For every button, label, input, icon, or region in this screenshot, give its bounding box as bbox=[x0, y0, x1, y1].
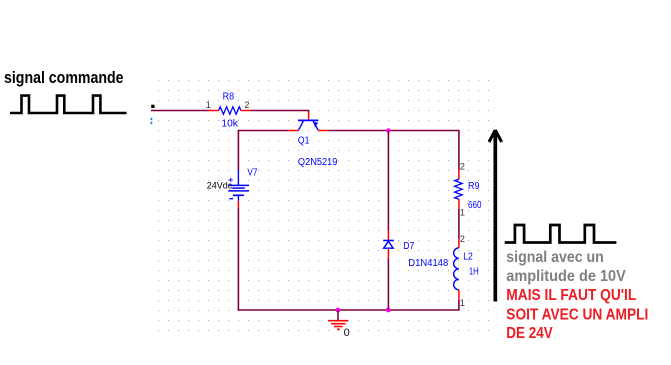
wire R8 to Q1 base corner bbox=[251, 111, 309, 113]
V7 minus pin stub bbox=[237, 201, 239, 208]
L2 bottom pin stub bbox=[458, 290, 460, 300]
inductor L2 bbox=[454, 248, 459, 290]
svg-text:MAIS IL FAUT QU'IL: MAIS IL FAUT QU'IL bbox=[506, 287, 636, 304]
bottom rail wire bbox=[238, 309, 460, 311]
input waveform (pulse train, left) bbox=[10, 96, 127, 113]
transistor Q1 bbox=[298, 120, 318, 130]
svg-text:signal avec un: signal avec un bbox=[506, 249, 604, 266]
svg-text:Q1: Q1 bbox=[298, 136, 310, 147]
svg-text:1H: 1H bbox=[469, 267, 479, 278]
output waveform (pulse train, right) bbox=[505, 225, 617, 243]
svg-text:660: 660 bbox=[468, 200, 482, 211]
ground 0 bbox=[328, 310, 348, 329]
svg-text:1: 1 bbox=[206, 100, 211, 110]
svg-text:Q2N5219: Q2N5219 bbox=[298, 157, 338, 168]
svg-text:signal commande: signal commande bbox=[4, 69, 124, 87]
big output arrow bbox=[489, 130, 502, 302]
svg-text:D1N4148: D1N4148 bbox=[408, 258, 448, 269]
R9 top pin stub bbox=[458, 170, 460, 180]
diode D7 bbox=[383, 241, 394, 249]
svg-text:1: 1 bbox=[460, 298, 465, 308]
Q1 emitter pin stub bbox=[318, 130, 328, 132]
wire top junction to D7 bbox=[387, 131, 389, 231]
blue cursor dashes bbox=[151, 118, 153, 124]
svg-text:L2: L2 bbox=[463, 252, 473, 263]
svg-text:R8: R8 bbox=[223, 92, 235, 103]
wire Q1 collector to V7 branch bbox=[238, 131, 288, 171]
D7 bottom pin stub bbox=[387, 249, 389, 259]
pin stub right of R8 bbox=[241, 110, 251, 112]
junction node at diode bottom bbox=[386, 308, 391, 313]
D7 top pin stub bbox=[387, 230, 389, 240]
wire V7 to bottom rail bbox=[237, 208, 239, 310]
junction node at ground bbox=[336, 308, 341, 313]
wire L2 to bottom rail bbox=[458, 300, 460, 310]
svg-text:2: 2 bbox=[460, 234, 465, 244]
wire input to R8 bbox=[151, 110, 209, 112]
L2 top pin stub bbox=[458, 239, 460, 248]
svg-text:DE 24V: DE 24V bbox=[506, 325, 553, 342]
wire R9 to L2 bbox=[458, 209, 460, 239]
resistor R8 bbox=[219, 107, 241, 114]
pin stub left of R8 bbox=[209, 110, 219, 112]
Q1 collector pin stub bbox=[288, 130, 298, 132]
svg-text:SOIT AVEC UN AMPLI: SOIT AVEC UN AMPLI bbox=[506, 307, 648, 324]
svg-text:D7: D7 bbox=[403, 241, 414, 252]
battery V7 bbox=[228, 170, 249, 201]
svg-text:10k: 10k bbox=[221, 118, 239, 129]
wire D7 to bottom rail bbox=[387, 259, 389, 310]
svg-text:2: 2 bbox=[460, 161, 465, 171]
svg-text:2: 2 bbox=[244, 100, 249, 110]
resistor R9 bbox=[455, 179, 463, 199]
svg-text:24Vdc: 24Vdc bbox=[207, 180, 233, 191]
svg-text:R9: R9 bbox=[468, 181, 480, 192]
junction node at diode top bbox=[386, 128, 391, 133]
input terminal square bbox=[151, 105, 154, 108]
svg-text:0: 0 bbox=[344, 327, 350, 339]
R9 bottom pin stub bbox=[458, 199, 460, 209]
svg-text:V7: V7 bbox=[247, 167, 257, 178]
wire Q1 emitter to R9 corner bbox=[328, 131, 459, 170]
Q1 base pin stub bbox=[308, 112, 310, 120]
svg-text:1: 1 bbox=[460, 208, 465, 218]
svg-text:amplitude de 10V: amplitude de 10V bbox=[506, 268, 626, 285]
